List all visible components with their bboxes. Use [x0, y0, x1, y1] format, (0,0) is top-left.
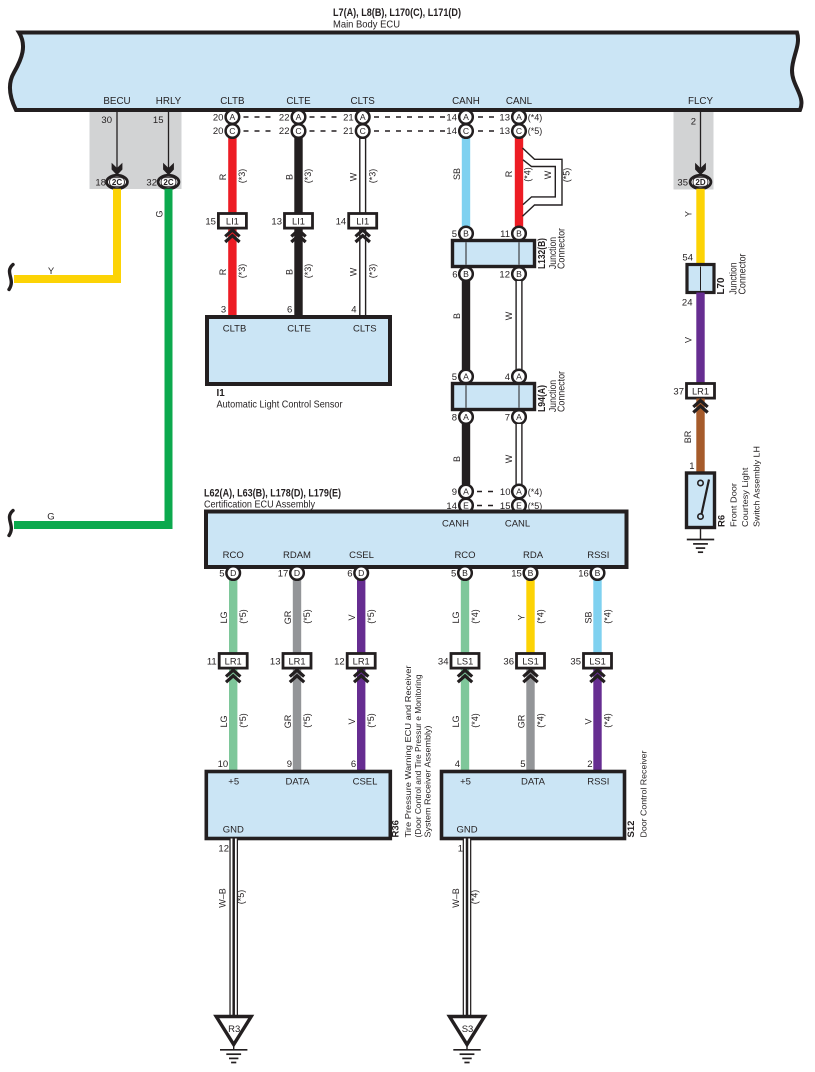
svg-text:9: 9 — [452, 487, 457, 498]
chevron arrows — [458, 670, 472, 676]
pin circle A CANL lower — [512, 410, 526, 424]
chevron arrows — [226, 670, 240, 676]
wire break symbol green — [9, 511, 13, 536]
svg-text:C: C — [516, 126, 522, 136]
junction block 34 LS1 — [451, 654, 479, 669]
ground symbol R6 — [687, 539, 714, 541]
svg-text:LI1: LI1 — [226, 217, 239, 227]
svg-text:R36: R36 — [391, 820, 402, 837]
svg-text:20: 20 — [213, 126, 224, 137]
svg-text:Automatic Light Control Sensor: Automatic Light Control Sensor — [217, 400, 344, 411]
svg-text:LG: LG — [219, 611, 229, 623]
ground symbol S3 — [453, 1049, 480, 1051]
svg-text:(*4): (*4) — [470, 609, 480, 624]
switch R6 Front Door Courtesy Light Switch box — [687, 473, 715, 528]
svg-text:2: 2 — [691, 117, 696, 128]
pin circle C CANH — [459, 124, 473, 138]
connector shade box for FLCY pin — [674, 111, 714, 190]
svg-text:CLTE: CLTE — [286, 96, 311, 107]
svg-text:Connector: Connector — [738, 253, 749, 295]
pin circle B — [524, 566, 538, 580]
sensor I1 Automatic Light Control Sensor box — [207, 317, 390, 384]
svg-text:L7(A), L8(B), L170(C), L171(D): L7(A), L8(B), L170(C), L171(D) — [333, 7, 461, 19]
svg-text:(Door Control and Tire Pressur: (Door Control and Tire Pressur e Monitor… — [413, 674, 423, 837]
svg-text:A: A — [296, 112, 302, 122]
svg-text:14: 14 — [336, 217, 347, 228]
svg-text:32: 32 — [146, 178, 157, 189]
svg-text:8: 8 — [452, 413, 457, 424]
svg-text:GR: GR — [283, 714, 293, 728]
svg-text:System Receiver Assembly): System Receiver Assembly) — [423, 725, 433, 837]
svg-text:RDA: RDA — [523, 550, 544, 561]
svg-text:2D: 2D — [695, 178, 705, 187]
svg-text:A: A — [463, 372, 469, 382]
wire FLCY lower segment colour BR — [696, 399, 704, 474]
svg-text:21: 21 — [343, 126, 354, 137]
svg-text:(*5): (*5) — [238, 609, 248, 624]
svg-text:A: A — [516, 412, 522, 422]
svg-text:(*3): (*3) — [237, 169, 247, 184]
pin circle B — [591, 566, 605, 580]
svg-text:B: B — [516, 229, 522, 239]
ECU L62 Certification ECU Assembly — [206, 512, 627, 568]
svg-text:(*4): (*4) — [536, 713, 546, 728]
svg-text:B: B — [284, 269, 294, 275]
wire CLTS upper segment colour W — [359, 138, 366, 215]
svg-text:C: C — [229, 126, 235, 136]
junction block 15 LI1 — [218, 214, 246, 229]
svg-text:CLTB: CLTB — [220, 96, 245, 107]
svg-text:W: W — [349, 172, 359, 181]
svg-text:V: V — [684, 337, 694, 343]
wire FLCY signal line — [700, 110, 702, 170]
svg-text:Door Control Receiver: Door Control Receiver — [639, 750, 649, 837]
svg-text:D: D — [230, 568, 236, 578]
svg-text:E: E — [516, 501, 522, 511]
svg-text:37: 37 — [673, 387, 684, 398]
pin circle A CANL upper — [512, 370, 526, 384]
svg-text:(*5): (*5) — [238, 713, 248, 728]
chevron arrows — [590, 670, 604, 676]
svg-text:CANH: CANH — [442, 519, 469, 530]
svg-text:CSEL: CSEL — [349, 550, 374, 561]
connector shade box for BECU/HRLY pins — [90, 111, 182, 189]
pin circle B CANH lower — [459, 267, 473, 281]
wire lower segment colour LG — [461, 667, 469, 772]
svg-text:1: 1 — [689, 461, 694, 472]
wire CLTE lower segment colour B — [294, 227, 302, 317]
svg-text:R: R — [218, 268, 228, 275]
dashed link row C — [244, 130, 276, 132]
pin circle A CANL bottom — [512, 485, 526, 499]
ground stub R6 — [700, 528, 702, 540]
svg-text:RCO: RCO — [454, 550, 475, 561]
svg-text:4: 4 — [505, 372, 510, 383]
svg-text:R3: R3 — [228, 1024, 240, 1035]
svg-text:W–B: W–B — [451, 888, 461, 908]
wire FLCY upper segment colour Y — [696, 189, 704, 266]
svg-text:LS1: LS1 — [589, 657, 606, 667]
svg-text:(*4): (*4) — [522, 167, 532, 182]
svg-text:5: 5 — [219, 569, 224, 580]
svg-text:+5: +5 — [228, 776, 239, 787]
svg-text:D: D — [358, 568, 364, 578]
svg-text:E: E — [463, 501, 469, 511]
svg-text:(*5): (*5) — [528, 126, 543, 136]
svg-text:Tire Pressure Warning ECU and: Tire Pressure Warning ECU and Receiver — [403, 665, 413, 837]
alternative wire bracket outer — [523, 148, 563, 216]
svg-text:CLTS: CLTS — [351, 96, 376, 107]
svg-text:(*4): (*4) — [528, 113, 543, 123]
svg-text:LI1: LI1 — [356, 217, 369, 227]
chevron arrows — [523, 670, 537, 676]
svg-text:LG: LG — [451, 715, 461, 727]
arrow HRLY — [163, 163, 174, 176]
wire CANH mid segment colour B — [462, 281, 470, 371]
svg-text:11: 11 — [500, 229, 510, 240]
svg-text:LR1: LR1 — [353, 657, 370, 667]
svg-text:11: 11 — [207, 657, 217, 668]
svg-text:13: 13 — [499, 113, 510, 124]
chevron arrows — [291, 230, 305, 236]
svg-text:A: A — [463, 487, 469, 497]
pin circle D — [354, 566, 368, 580]
svg-text:2: 2 — [587, 759, 592, 770]
svg-text:CLTS: CLTS — [353, 324, 377, 335]
svg-text:V: V — [347, 614, 357, 620]
svg-text:LR1: LR1 — [692, 387, 709, 397]
svg-text:14: 14 — [446, 126, 457, 137]
svg-text:Main Body ECU: Main Body ECU — [333, 19, 400, 31]
wire FLCY mid segment colour V — [696, 293, 704, 385]
svg-text:34: 34 — [438, 657, 449, 668]
svg-text:B: B — [452, 456, 462, 462]
svg-text:Y: Y — [684, 211, 694, 217]
svg-text:Y: Y — [516, 614, 526, 620]
wire CANL upper segment colour R — [515, 138, 523, 228]
svg-text:RDAM: RDAM — [283, 550, 311, 561]
svg-text:16: 16 — [578, 569, 589, 580]
svg-text:4: 4 — [455, 759, 460, 770]
svg-text:RSSI: RSSI — [587, 550, 609, 561]
svg-text:7: 7 — [505, 413, 510, 424]
wire CANL lower segment colour W — [515, 424, 522, 485]
wire CLTB lower segment colour R — [228, 227, 236, 317]
svg-text:DATA: DATA — [286, 776, 311, 787]
arrow BECU — [112, 163, 123, 176]
svg-text:(*4): (*4) — [536, 609, 546, 624]
svg-text:Connector: Connector — [557, 227, 568, 269]
svg-text:BECU: BECU — [103, 96, 130, 107]
svg-text:(*5): (*5) — [236, 890, 246, 905]
svg-text:36: 36 — [503, 657, 514, 668]
svg-text:(*4): (*4) — [470, 713, 480, 728]
junction connector L132(B) — [453, 241, 535, 267]
pin circle B CANL upper — [512, 227, 526, 241]
svg-text:LG: LG — [219, 715, 229, 727]
ECU R36 Tire Pressure Warning ECU and Receiver box — [206, 772, 390, 839]
wire LR1 13 upper segment colour GR — [293, 580, 301, 655]
svg-text:W: W — [349, 267, 359, 276]
svg-text:LS1: LS1 — [522, 657, 539, 667]
svg-text:(*5): (*5) — [366, 609, 376, 624]
svg-text:G: G — [154, 210, 164, 217]
chevron arrows — [356, 230, 370, 236]
svg-text:W: W — [504, 311, 514, 320]
svg-text:20: 20 — [213, 113, 224, 124]
svg-text:CSEL: CSEL — [353, 776, 378, 787]
svg-text:(*4): (*4) — [603, 609, 613, 624]
svg-text:(*3): (*3) — [303, 264, 313, 279]
chevron arrows — [354, 670, 368, 676]
svg-text:A: A — [463, 412, 469, 422]
pin circle C CLTS — [356, 124, 370, 138]
svg-text:B: B — [463, 229, 469, 239]
junction connector L70 — [687, 265, 714, 293]
svg-text:Connector: Connector — [557, 370, 568, 412]
svg-text:W–B: W–B — [218, 888, 228, 908]
svg-text:L94(A): L94(A) — [536, 385, 548, 412]
svg-text:V: V — [347, 718, 357, 724]
switch contact lower — [698, 514, 703, 519]
svg-text:A: A — [230, 112, 236, 122]
svg-text:13: 13 — [271, 217, 282, 228]
svg-text:S12: S12 — [626, 821, 637, 838]
svg-text:HRLY: HRLY — [156, 96, 182, 107]
svg-text:24: 24 — [682, 298, 693, 309]
wire CLTS lower segment colour W — [359, 227, 366, 317]
pin circle C CLTB — [226, 124, 240, 138]
svg-text:GR: GR — [283, 610, 293, 624]
svg-text:A: A — [516, 112, 522, 122]
svg-text:I1: I1 — [217, 388, 226, 399]
pin circle A CLTE — [292, 110, 306, 124]
chevron arrows FLCY — [693, 401, 707, 407]
wire break symbol yellow — [9, 265, 13, 290]
svg-text:(*3): (*3) — [367, 264, 377, 279]
svg-text:RCO: RCO — [223, 550, 244, 561]
svg-text:L70: L70 — [715, 277, 727, 294]
svg-text:A: A — [463, 112, 469, 122]
svg-text:17: 17 — [278, 569, 289, 580]
svg-text:A: A — [516, 487, 522, 497]
svg-text:22: 22 — [279, 113, 290, 124]
svg-text:10: 10 — [218, 759, 229, 770]
junction block 13 LI1 — [285, 214, 313, 229]
svg-text:W: W — [504, 454, 514, 463]
svg-text:Front Door: Front Door — [729, 483, 739, 527]
svg-text:CANH: CANH — [452, 96, 480, 107]
svg-text:Courtesy Light: Courtesy Light — [740, 467, 750, 527]
pin circle D — [226, 566, 240, 580]
wire lower segment colour V — [593, 667, 601, 772]
dashed link 9-10 — [477, 491, 493, 493]
svg-text:SB: SB — [452, 168, 462, 180]
svg-text:R: R — [504, 170, 514, 177]
svg-text:A: A — [516, 372, 522, 382]
svg-text:1: 1 — [458, 844, 463, 855]
pin circle A CLTB — [226, 110, 240, 124]
chevron arrows — [290, 670, 304, 676]
connector 2C HRLY — [158, 175, 179, 188]
svg-text:18: 18 — [95, 178, 106, 189]
pin circle A CANH bottom — [459, 485, 473, 499]
wire W-B from S12 GND — [463, 839, 472, 1018]
svg-text:BR: BR — [683, 430, 693, 443]
svg-text:GR: GR — [516, 714, 526, 728]
junction block 37 LR1 — [687, 384, 715, 399]
junction block 35 LS1 — [584, 654, 612, 669]
svg-text:(*5): (*5) — [366, 713, 376, 728]
wire lower segment colour LG — [229, 667, 237, 772]
pin circle D — [290, 566, 304, 580]
svg-text:(*5): (*5) — [302, 609, 312, 624]
svg-text:B: B — [452, 313, 462, 319]
svg-text:15: 15 — [205, 217, 216, 228]
svg-text:+5: +5 — [460, 776, 471, 787]
svg-text:G: G — [47, 512, 54, 523]
svg-text:Switch Assembly LH: Switch Assembly LH — [752, 446, 762, 527]
wire lower segment colour V — [357, 667, 365, 772]
wire CANH upper segment colour SB — [462, 138, 470, 228]
wire lower segment colour GR — [293, 667, 301, 772]
svg-text:W: W — [543, 170, 553, 179]
svg-text:LI1: LI1 — [292, 217, 305, 227]
svg-text:CANL: CANL — [506, 96, 533, 107]
svg-text:6: 6 — [347, 569, 352, 580]
wire LR1 12 upper segment colour V — [357, 580, 365, 655]
pin circle A CANH upper — [459, 370, 473, 384]
pin circle E CANH bottom — [459, 499, 473, 513]
svg-text:6: 6 — [452, 270, 457, 281]
svg-text:12: 12 — [334, 657, 345, 668]
svg-text:10: 10 — [500, 487, 511, 498]
pin circle A CLTS — [356, 110, 370, 124]
wire lower segment colour GR — [526, 667, 534, 772]
wire HRLY signal line — [168, 110, 170, 170]
ECU S12 Door Control Receiver box — [442, 772, 625, 839]
svg-text:(*3): (*3) — [303, 169, 313, 184]
svg-text:GND: GND — [223, 824, 244, 835]
svg-text:D: D — [294, 568, 300, 578]
svg-text:(*5): (*5) — [562, 168, 572, 183]
svg-text:B: B — [284, 174, 294, 180]
svg-text:14: 14 — [446, 113, 457, 124]
arrow FLCY — [695, 163, 706, 176]
svg-text:6: 6 — [351, 759, 356, 770]
svg-text:2C: 2C — [112, 178, 122, 187]
svg-text:35: 35 — [677, 178, 688, 189]
svg-text:30: 30 — [101, 115, 112, 126]
svg-text:CLTB: CLTB — [223, 324, 247, 335]
wire LR1 11 upper segment colour LG — [229, 580, 237, 655]
svg-text:54: 54 — [682, 253, 693, 264]
svg-text:13: 13 — [499, 126, 510, 137]
svg-text:12: 12 — [218, 844, 229, 855]
svg-text:C: C — [360, 126, 366, 136]
svg-text:Certification ECU Assembly: Certification ECU Assembly — [204, 499, 316, 511]
ground point R3 — [216, 1017, 251, 1045]
junction block 36 LS1 — [517, 654, 545, 669]
connector 2C BECU — [107, 175, 128, 188]
svg-text:6: 6 — [287, 305, 292, 316]
alternative wire bracket inner — [523, 160, 555, 205]
pin circle C CLTE — [292, 124, 306, 138]
junction block 11 LR1 — [219, 654, 247, 669]
svg-text:5: 5 — [452, 229, 457, 240]
svg-text:4: 4 — [351, 305, 356, 316]
pin circle A CANL — [512, 110, 526, 124]
svg-text:35: 35 — [570, 657, 581, 668]
pin circle B CANL lower — [512, 267, 526, 281]
dashed link 14-15 — [477, 505, 493, 507]
svg-text:CANL: CANL — [505, 519, 530, 530]
switch lever — [702, 480, 710, 515]
svg-text:B: B — [528, 568, 534, 578]
switch contact upper — [698, 480, 703, 485]
svg-text:S3: S3 — [462, 1024, 474, 1035]
svg-text:V: V — [583, 718, 593, 724]
wire G green HRLY — [14, 189, 169, 525]
wire LS1 36 upper segment colour Y — [526, 580, 534, 655]
ECU L7 Main Body ECU band — [10, 33, 802, 111]
junction block 14 LI1 — [349, 214, 377, 229]
ground point S3 — [450, 1017, 485, 1045]
wire LS1 34 upper segment colour LG — [461, 580, 469, 655]
chevron arrows — [225, 230, 239, 236]
svg-text:LS1: LS1 — [457, 657, 474, 667]
pin circle A CANH lower — [459, 410, 473, 424]
svg-text:5: 5 — [451, 569, 456, 580]
svg-text:12: 12 — [499, 270, 510, 281]
svg-text:Y: Y — [48, 266, 55, 277]
dashed link row A — [244, 116, 276, 118]
pin circle C CANL — [512, 124, 526, 138]
svg-text:SB: SB — [583, 611, 593, 623]
svg-text:C: C — [295, 126, 301, 136]
svg-text:B: B — [516, 269, 522, 279]
svg-text:2C: 2C — [163, 178, 173, 187]
pin circle B CANH upper — [459, 227, 473, 241]
pin circle B — [458, 566, 472, 580]
pin circle A CANH — [459, 110, 473, 124]
svg-text:3: 3 — [221, 305, 226, 316]
svg-text:R6: R6 — [717, 515, 728, 527]
wire LS1 35 upper segment colour SB — [593, 580, 601, 655]
svg-text:GND: GND — [456, 824, 477, 835]
svg-text:LG: LG — [451, 611, 461, 623]
connector 2D FLCY — [690, 175, 711, 188]
svg-text:22: 22 — [279, 126, 290, 137]
svg-text:5: 5 — [452, 372, 457, 383]
svg-text:B: B — [462, 568, 468, 578]
svg-text:FLCY: FLCY — [688, 96, 714, 107]
wire W-B from R36 GND — [229, 839, 238, 1018]
svg-text:LR1: LR1 — [225, 657, 242, 667]
svg-text:13: 13 — [270, 657, 281, 668]
svg-text:(*3): (*3) — [237, 264, 247, 279]
junction block 13 LR1 — [283, 654, 311, 669]
svg-text:(*4): (*4) — [528, 487, 543, 497]
svg-text:9: 9 — [287, 759, 292, 770]
wire CLTE upper segment colour B — [294, 138, 302, 215]
wire CANL mid segment colour W — [515, 281, 522, 371]
svg-text:R: R — [218, 173, 228, 180]
wire CANH lower segment colour B — [462, 424, 470, 485]
svg-text:RSSI: RSSI — [587, 776, 609, 787]
svg-text:(*5): (*5) — [302, 713, 312, 728]
wire BECU signal line — [116, 110, 118, 170]
